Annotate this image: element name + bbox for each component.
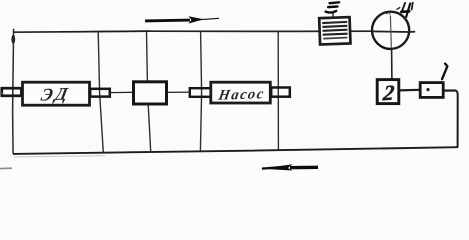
svg-text:ЭД: ЭД	[39, 83, 72, 104]
svg-text:Насос: Насос	[216, 86, 266, 104]
